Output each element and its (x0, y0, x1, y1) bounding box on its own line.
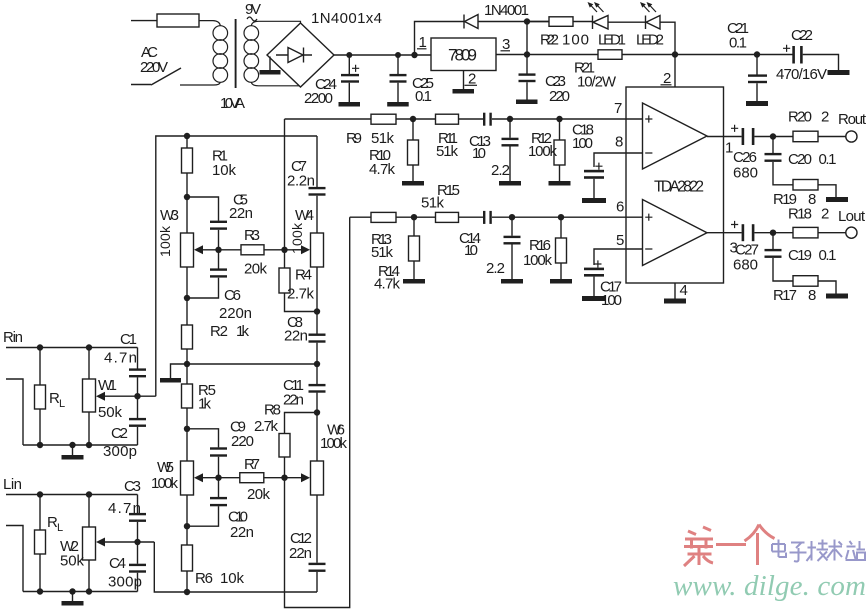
capacitor C4 300p (137, 542, 139, 592)
potentiometer W2 50k (88, 495, 90, 592)
svg-text:51k: 51k (371, 130, 395, 147)
svg-text:10VA: 10VA (220, 95, 245, 112)
svg-text:R18: R18 (788, 206, 812, 223)
node C21 (754, 51, 760, 57)
svg-text:22n: 22n (283, 392, 304, 409)
svg-text:C6: C6 (224, 287, 241, 304)
Lin return wire (6, 526, 23, 592)
capacitor 2.2 row2 (511, 217, 513, 279)
terminal Lout (846, 227, 857, 238)
svg-text:100k: 100k (320, 435, 348, 452)
svg-text:2.2n: 2.2n (287, 173, 315, 190)
capacitor C17 100 (584, 268, 604, 271)
svg-text:50k: 50k (98, 404, 123, 421)
ground rail input 2 (23, 591, 138, 593)
node out2 (770, 230, 776, 236)
svg-text:0.1: 0.1 (819, 151, 837, 168)
capacitor C1 4.7n (137, 348, 139, 397)
node out1 (770, 133, 776, 139)
capacitor C2 300p (137, 396, 139, 445)
svg-text:22n: 22n (230, 524, 254, 541)
node at C25 (395, 52, 401, 58)
svg-text:2: 2 (821, 206, 829, 223)
svg-text:51k: 51k (421, 195, 445, 212)
svg-text:22n: 22n (284, 328, 308, 345)
resistor R8 2.7k (285, 413, 318, 478)
node RL1 top (37, 344, 43, 350)
capacitor C12 22n (309, 563, 326, 565)
capacitor C19 0.1 (773, 233, 793, 281)
capacitor C27 680 (742, 224, 745, 241)
ground inside bridge (269, 57, 271, 71)
watermark blue hanzi (772, 540, 865, 562)
row 1 wire to pin 7 (285, 118, 627, 120)
ground bus wire (187, 363, 317, 365)
resistor R17 8 (793, 276, 818, 287)
op-amp B (bottom) (643, 200, 708, 266)
~ symbol (247, 17, 257, 21)
svg-text:22n: 22n (289, 545, 312, 562)
AC mains input wires (131, 21, 157, 85)
resistor R19 8 (793, 180, 818, 191)
Rin return wire (6, 379, 23, 445)
capacitor C14 10 (483, 211, 485, 224)
svg-text:4: 4 (680, 282, 688, 299)
node at C24 (346, 52, 352, 58)
svg-text:2.7k: 2.7k (287, 286, 315, 303)
svg-text:8: 8 (615, 134, 623, 151)
svg-text:Rout: Rout (838, 111, 866, 128)
svg-text:R3: R3 (244, 227, 260, 244)
svg-text:W1: W1 (98, 377, 117, 394)
resistor R18 2 (793, 227, 818, 238)
resistor R20 2 (793, 131, 818, 142)
svg-text:Lin: Lin (3, 476, 22, 493)
pin 4 ground (674, 283, 676, 299)
capacitor C13 10 (483, 113, 485, 126)
node W1 top (86, 344, 92, 350)
node R10 (410, 116, 416, 122)
svg-text:100k: 100k (151, 475, 179, 492)
svg-text:2.2: 2.2 (491, 162, 510, 179)
svg-text:W3: W3 (160, 207, 179, 224)
svg-text:4.7n: 4.7n (104, 350, 137, 367)
row 2 wire to pin 6 (350, 216, 626, 218)
svg-text:Rin: Rin (3, 329, 23, 346)
node 2.2 cap row1 (507, 116, 513, 122)
resistor R16 100k (560, 217, 562, 279)
resistor R21 10/2W (598, 50, 622, 60)
capacitor C8 22n (309, 334, 326, 336)
svg-text:100: 100 (572, 135, 593, 152)
fuse (157, 14, 199, 27)
svg-text:C1: C1 (120, 331, 137, 348)
LED2 (645, 16, 647, 30)
potentiometer W1 50k (88, 348, 90, 446)
svg-text:R8: R8 (264, 402, 281, 419)
svg-text:1k: 1k (236, 323, 250, 340)
resistor R7 20k (240, 473, 264, 483)
diode 1N4001 bypass (415, 22, 465, 56)
svg-text:10: 10 (472, 145, 486, 162)
resistor R14 4.7k (413, 217, 415, 279)
svg-text:www. dilge. com: www. dilge. com (673, 570, 866, 602)
svg-text:1N4001x4: 1N4001x4 (311, 10, 382, 27)
svg-text:Lout: Lout (838, 208, 866, 225)
terminal Rout (846, 131, 857, 142)
svg-text:1N4001: 1N4001 (484, 2, 529, 19)
svg-text:8: 8 (808, 287, 816, 304)
node A (184, 194, 190, 200)
pin 5 wire (594, 249, 643, 265)
capacitor C9 220 (187, 429, 219, 478)
svg-text:100k: 100k (157, 225, 173, 257)
svg-text:220: 220 (549, 88, 570, 105)
svg-text:4.7k: 4.7k (369, 161, 396, 178)
op-amp A (top) (643, 103, 708, 169)
node wiper W2 (134, 539, 140, 545)
svg-text:R6: R6 (195, 570, 213, 587)
wiper arrow W6 (301, 473, 310, 482)
capacitor C7 2.2n (316, 136, 318, 233)
svg-text:LED1: LED1 (598, 32, 626, 49)
node R12 (556, 116, 562, 122)
svg-text:C26: C26 (733, 149, 757, 166)
svg-text:22n: 22n (229, 205, 253, 222)
resistor R13 51k (371, 212, 396, 222)
svg-text:R22: R22 (540, 32, 559, 49)
svg-text:6: 6 (616, 199, 624, 216)
svg-text:2.7k: 2.7k (254, 418, 279, 435)
resistor R10 4.7k (412, 119, 414, 181)
node at 7809 input (411, 52, 417, 58)
svg-text:300p: 300p (108, 574, 142, 591)
capacitor C6 220n (187, 250, 219, 298)
capacitor C11 22n (316, 364, 318, 413)
output jog channel 2 (285, 217, 350, 607)
svg-text:220: 220 (231, 433, 254, 450)
svg-text:R20: R20 (788, 109, 812, 126)
svg-text:50k: 50k (60, 553, 85, 570)
node J2 (281, 247, 287, 253)
svg-text:7809: 7809 (448, 46, 477, 65)
svg-text:R7: R7 (244, 456, 260, 473)
svg-text:0.1: 0.1 (415, 88, 432, 105)
node RL2 top (37, 491, 43, 497)
capacitor C10 22n (187, 478, 219, 527)
svg-text:7: 7 (614, 100, 622, 117)
pin 2 wire (674, 55, 676, 88)
node W4 bottom (314, 308, 320, 314)
capacitor C23 220 (526, 55, 528, 100)
svg-text:0.1: 0.1 (819, 247, 837, 264)
svg-text:C4: C4 (109, 555, 126, 572)
input rail channel 2 (154, 542, 317, 592)
svg-text:10: 10 (464, 242, 478, 259)
node C9 top (184, 426, 190, 432)
svg-text:C2: C2 (111, 425, 128, 442)
capacitor C3 4.7n (137, 495, 139, 543)
watermark red hanzi (684, 525, 775, 567)
pin 6 (626, 216, 643, 218)
svg-text:10k: 10k (212, 162, 237, 179)
resistor R6 10k (186, 526, 188, 592)
capacitor C25 0.1 (397, 55, 399, 102)
resistor R2 1k (186, 298, 188, 364)
transformer secondary winding (244, 26, 259, 41)
resistor RL (left ch) (39, 495, 41, 592)
resistor R11 51k (436, 114, 459, 124)
svg-text:470/16V: 470/16V (776, 66, 827, 83)
input rail channel 1 (156, 136, 317, 396)
bridge rectifier 1N4001x4 (267, 23, 334, 87)
svg-text:R2: R2 (210, 323, 228, 340)
svg-text:20k: 20k (247, 486, 271, 503)
svg-text:C10: C10 (228, 509, 248, 526)
DC output wire (334, 54, 431, 56)
svg-text:4.7n: 4.7n (108, 500, 141, 517)
node W2 top (86, 491, 92, 497)
svg-text:R4: R4 (295, 267, 312, 284)
svg-text:W5: W5 (157, 459, 174, 476)
svg-text:L: L (59, 398, 65, 410)
svg-text:5: 5 (616, 232, 624, 249)
ground symbol mid (171, 364, 188, 378)
node supply/pin2 (672, 51, 678, 57)
svg-text:220n: 220n (219, 305, 252, 322)
output pin 3 wire (707, 232, 742, 234)
svg-text:W4: W4 (295, 207, 314, 224)
regulated output wire (496, 54, 793, 56)
riser J2 to row1 (284, 119, 286, 250)
node 2.2 cap row2 (509, 214, 515, 220)
svg-text:9V: 9V (245, 1, 261, 18)
resistor RL (right ch) (39, 348, 41, 446)
svg-text:100: 100 (601, 292, 622, 309)
IC TDA2822 box (626, 87, 724, 283)
svg-text:20k: 20k (244, 261, 268, 278)
svg-text:51k: 51k (371, 244, 394, 261)
svg-text:220V: 220V (140, 59, 168, 76)
svg-text:2: 2 (821, 109, 829, 126)
node wiper W1 (134, 393, 140, 399)
svg-text:TDA2822: TDA2822 (654, 179, 704, 196)
resistor R5 1k (186, 364, 188, 429)
capacitor C26 680 (742, 128, 745, 145)
svg-text:100k: 100k (523, 252, 553, 269)
capacitor C20 0.1 (773, 137, 793, 185)
svg-text:10/2W: 10/2W (577, 74, 617, 91)
svg-text:2.2: 2.2 (486, 260, 505, 277)
svg-text:100k: 100k (289, 222, 305, 254)
svg-text:2200: 2200 (304, 90, 333, 107)
node C23 (524, 51, 530, 57)
resistor R1 10k (186, 136, 188, 197)
node J1 wiper W3 (215, 247, 221, 253)
svg-text:51k: 51k (436, 143, 459, 160)
node diode/R22 (524, 18, 530, 24)
node R14 (411, 214, 417, 220)
svg-text:R17: R17 (773, 287, 797, 304)
resistor R3 20k (241, 245, 264, 255)
node R1 top (184, 133, 190, 139)
resistor R12 100k (559, 119, 561, 181)
node R16 (558, 214, 564, 220)
svg-text:1k: 1k (198, 396, 212, 413)
svg-text:C22: C22 (791, 27, 813, 44)
pin 8 wire (594, 153, 643, 167)
potentiometer W5 100k (186, 429, 188, 526)
ground R10 (402, 181, 424, 186)
resistor R9 51k (371, 114, 396, 124)
transformer T primary winding (213, 26, 228, 41)
capacitor 2.2 row1 (509, 119, 511, 181)
svg-text:0.1: 0.1 (729, 35, 747, 52)
switch (151, 68, 181, 85)
svg-text:L: L (57, 522, 63, 534)
ground symbol input 2 (72, 592, 74, 602)
svg-text:4.7k: 4.7k (374, 276, 401, 293)
svg-text:100: 100 (562, 32, 589, 49)
node J4 (281, 475, 287, 481)
svg-text:C3: C3 (124, 478, 141, 495)
resistor R15 51k (436, 212, 459, 222)
node C10 bottom (184, 523, 190, 529)
output pin 1 wire (707, 136, 742, 138)
resistor R4 2.7k (285, 250, 318, 312)
svg-text:100k: 100k (528, 143, 558, 160)
potentiometer W6 100k (316, 413, 318, 563)
svg-text:680: 680 (733, 165, 758, 182)
ground symbol input 1 (72, 445, 74, 455)
pin 7 (626, 118, 643, 120)
resistor R22 100 (527, 21, 593, 23)
capacitor C21 0.1 (756, 55, 758, 102)
svg-text:680: 680 (733, 257, 758, 274)
capacitor C5 22n (187, 197, 219, 250)
svg-text:C19: C19 (788, 247, 812, 264)
node J3 wiper W5 (215, 475, 221, 481)
svg-text:LED2: LED2 (636, 32, 664, 49)
node B (184, 295, 190, 301)
transformer core (235, 19, 237, 88)
potentiometer W4 100k (311, 233, 324, 267)
wiper arrow W4 (301, 245, 310, 254)
capacitor C18 100 (584, 170, 604, 173)
LED1 (592, 16, 594, 30)
svg-text:C20: C20 (788, 151, 812, 168)
capacitor C24 2200 (348, 55, 350, 102)
svg-text:10k: 10k (220, 570, 245, 587)
node R8 top (314, 409, 320, 415)
svg-text:R9: R9 (346, 130, 362, 147)
potentiometer W3 100k (186, 197, 188, 298)
capacitor C22 470/16V (792, 46, 795, 64)
ground rail input 1 (23, 444, 138, 446)
regulator U 7809 (431, 38, 496, 71)
